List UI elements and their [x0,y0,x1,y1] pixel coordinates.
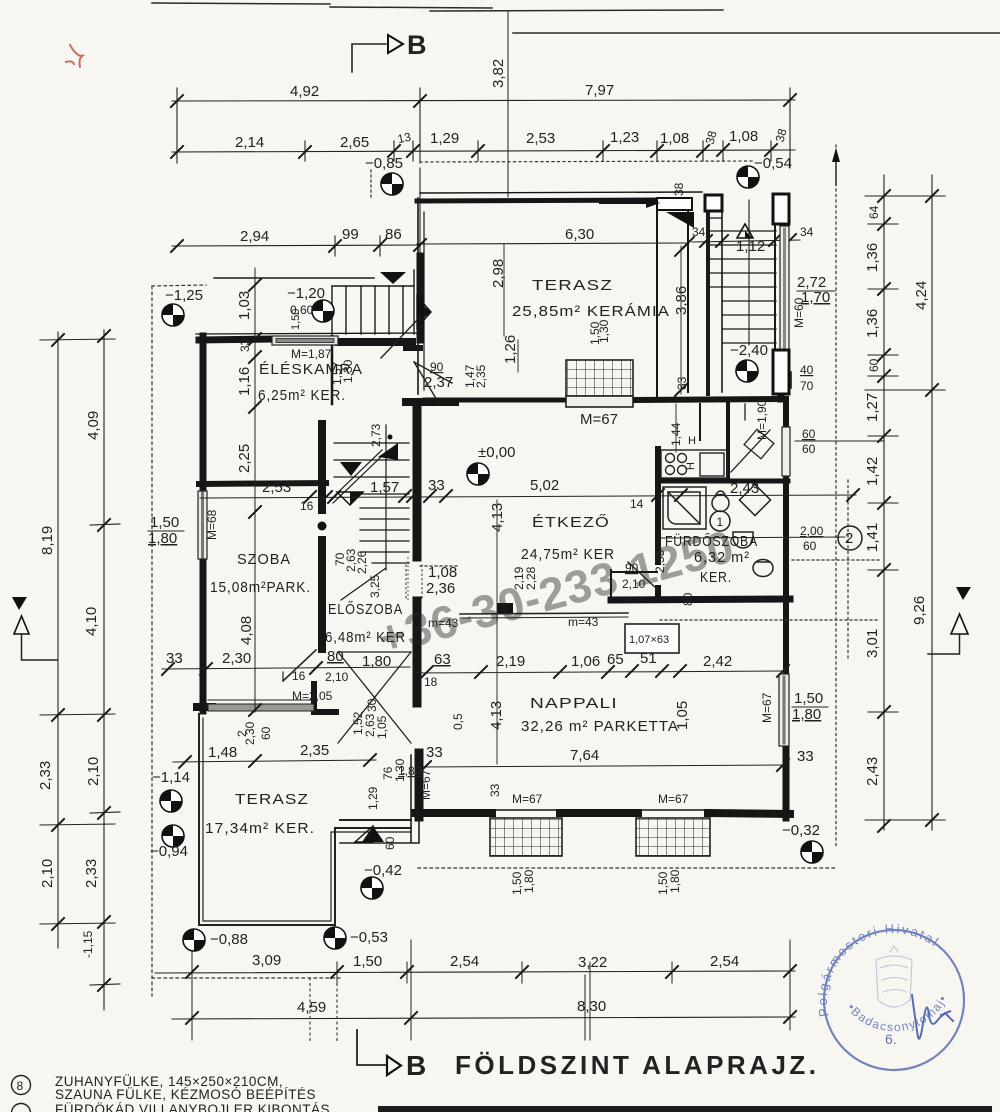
svg-text:−0,88: −0,88 [210,931,248,948]
svg-text:63: 63 [434,651,451,668]
svg-text:80: 80 [681,592,695,606]
svg-text:1,36: 1,36 [864,309,881,338]
svg-text:1,30: 1,30 [341,359,355,383]
svg-text:2,54: 2,54 [710,953,739,970]
svg-text:1,80: 1,80 [148,530,177,547]
east wall south of window [783,746,790,818]
up line diagonal [330,450,382,500]
svg-text:3,82: 3,82 [490,59,507,88]
terasz north wall [417,200,660,201]
svg-text:5,02: 5,02 [530,477,559,494]
nappali sw notch [340,819,411,821]
svg-text:32,26 m² PARKETTA: 32,26 m² PARKETTA [521,718,679,735]
svg-text:70: 70 [800,379,814,393]
svg-text:M=2,05: M=2,05 [292,689,333,703]
svg-text:−1,14: −1,14 [152,769,190,786]
line y=497 across [200,495,856,498]
door sill bath east [782,427,790,476]
svg-text:2,33: 2,33 [37,761,54,790]
svg-text:3,25: 3,25 [368,574,382,598]
svg-text:1,42: 1,42 [864,457,881,486]
svg-text:1,30: 1,30 [597,319,611,343]
door szoba->eloszoba [283,650,316,681]
bottom black bar [378,1106,992,1112]
szoba east / stair west wall [318,424,326,649]
eleskamra north wall right part (under steps) [339,338,412,346]
svg-text:2,54: 2,54 [450,953,479,970]
svg-text:40: 40 [800,363,814,377]
svg-text:60: 60 [867,358,881,372]
door eleskamra (diagonal at entry) [414,362,440,405]
eleskamra right diagonal [381,316,421,358]
section marker B top [352,30,427,72]
window: nappali east [779,674,789,746]
svg-text:2,53: 2,53 [262,479,291,496]
house east wall: stair section [784,196,789,228]
svg-text:4,24: 4,24 [913,281,930,310]
szoba vertical dim line x=255 [254,268,256,712]
svg-text:1,50: 1,50 [353,953,382,970]
cupboard 1,07x63 [625,624,679,653]
svg-text:2,26: 2,26 [355,550,369,574]
eleskamra north wall left part [199,339,272,340]
svg-text:3,01: 3,01 [864,629,881,658]
kitchen / bathroom west wall [655,449,661,562]
svg-text:2,94: 2,94 [240,228,269,245]
svg-text:M=67: M=67 [658,792,689,806]
svg-text:2,42: 2,42 [703,653,732,670]
etkezo north wall west part [406,398,455,406]
svg-text:2,33: 2,33 [83,859,100,888]
svg-text:8: 8 [17,1079,24,1093]
lower boundary diagonal [341,568,386,600]
terasz east edge / stair landing strip [656,198,658,399]
svg-text:9,26: 9,26 [911,596,928,625]
dim row 1,48 / 2,35 [173,760,376,762]
svg-text:4,08: 4,08 [238,616,255,645]
svg-text:60: 60 [802,427,816,441]
wc pear [712,491,729,512]
window: nappali south 2 (hatched sill) [636,818,710,856]
section line B (dashed vertical) [507,12,509,197]
svg-text:4,92: 4,92 [290,83,319,100]
nappali west wall lower [415,753,424,817]
survey point [737,166,759,188]
basin diamond [739,484,770,515]
svg-text:90: 90 [430,360,444,374]
34 / 1,12 / 34 stair dims [692,240,800,242]
svg-text:TERASZ: TERASZ [235,791,309,808]
svg-text:FÜRDÖKÁD VILLANYBOJLER KIBONTÁ: FÜRDÖKÁD VILLANYBOJLER KIBONTÁS [55,1102,330,1112]
svg-text:M=67: M=67 [760,692,774,723]
svg-text:2,00: 2,00 [800,524,824,538]
svg-text:1,80: 1,80 [522,869,536,893]
svg-text:2,35: 2,35 [300,742,329,759]
svg-text:−0,32: −0,32 [782,822,820,839]
thin inner line of south wall across windows [490,809,562,811]
svg-text:SZOBA: SZOBA [237,551,291,568]
svg-text:25,85m² KERÁMIA: 25,85m² KERÁMIA [512,303,670,320]
svg-text:1,36: 1,36 [864,243,881,272]
svg-text:60: 60 [383,836,397,850]
svg-text:16: 16 [300,499,314,513]
svg-text:6,30: 6,30 [565,226,594,243]
threshold szoba -> terasz (gray band) [208,704,314,711]
svg-text:33: 33 [426,744,443,761]
svg-text:3,22: 3,22 [578,954,607,971]
svg-text:1,48: 1,48 [208,744,237,761]
bathroom north wall [658,479,788,484]
svg-text:16: 16 [292,669,306,683]
svg-text:1,08: 1,08 [660,130,689,147]
svg-text:33: 33 [238,338,252,352]
svg-text:M=67: M=67 [580,411,618,428]
door eloszoba X cross [338,652,411,743]
dotted line along row2 [420,161,755,162]
notch arrows [362,826,384,842]
svg-text:1,08: 1,08 [428,564,457,581]
svg-text:1,07×63: 1,07×63 [629,634,669,646]
window: etkezo north (hatched) [566,360,633,407]
svg-text:1,16: 1,16 [236,367,253,396]
window: stair east M=60 [780,226,789,350]
szoba south wall left stub [197,703,212,711]
svg-text:1,29: 1,29 [430,130,459,147]
svg-text:4,10: 4,10 [83,607,100,636]
svg-text:1,57: 1,57 [370,479,399,496]
open triangle marker on stair [737,224,753,238]
svg-text:2,37: 2,37 [424,374,453,391]
svg-text:6.: 6. [885,1031,897,1047]
2,30 row y=668 [162,667,410,669]
svg-text:33: 33 [797,748,814,765]
svg-text:7,64: 7,64 [570,747,599,764]
thin interior dim verticals [497,244,681,764]
svg-text:86: 86 [385,226,402,243]
svg-text:0,5: 0,5 [451,713,465,730]
svg-text:2,14: 2,14 [235,134,264,151]
svg-text:2,35: 2,35 [474,364,488,388]
west outer wall upper [200,336,207,492]
basin half oval lower [733,532,753,548]
thin line above terasz north wall [420,192,702,193]
svg-text:30: 30 [365,698,379,712]
svg-text:1,29: 1,29 [366,786,380,810]
svg-text:4,59: 4,59 [297,999,326,1016]
south wall segments [415,809,492,817]
svg-text:B: B [407,30,427,60]
svg-text:1,05: 1,05 [375,715,389,739]
svg-text:4,09: 4,09 [85,411,102,440]
svg-text:1,23: 1,23 [610,129,639,146]
treads [708,230,776,232]
svg-text:−2,40: −2,40 [730,342,768,359]
svg-text:18: 18 [424,675,438,689]
signature [912,995,953,1039]
svg-text:1,12: 1,12 [736,238,765,255]
svg-text:8,30: 8,30 [577,998,606,1015]
svg-text:1,27: 1,27 [864,393,881,422]
stair arrows [340,462,362,476]
shower [663,487,706,529]
svg-text:1,03: 1,03 [236,291,253,320]
svg-text:34: 34 [692,225,706,239]
svg-text:M=67: M=67 [512,792,543,806]
white pillar posts [705,195,722,211]
svg-text:1,50: 1,50 [794,690,823,707]
svg-text:1,50: 1,50 [290,309,302,330]
svg-text:33: 33 [428,477,445,494]
entry arrow [600,202,652,204]
svg-text:1,41: 1,41 [864,523,881,552]
internal staircase [330,425,409,600]
svg-text:99: 99 [342,226,359,243]
svg-text:1,80: 1,80 [792,706,821,723]
svg-text:1,80: 1,80 [668,869,682,893]
svg-text:2,10: 2,10 [85,757,102,786]
svg-text:±0,00: ±0,00 [478,444,515,461]
svg-text:64: 64 [867,205,881,219]
svg-text:80: 80 [327,648,344,665]
circled 1 [710,511,730,531]
small wc oval [753,560,773,577]
etkezo north wall east part [631,399,776,400]
entry steps east jamb thick [417,256,424,340]
szoba south threshold jamb right [314,684,336,712]
door swing corner room [731,430,770,472]
stair east / eloszoba east wall upper [413,404,422,557]
svg-text:M=60: M=60 [792,297,806,328]
nappali dim row y=672 [415,671,786,673]
svg-text:2: 2 [845,530,853,547]
top landing black block [600,198,694,228]
bottom dim row y=972 [155,971,795,973]
svg-text:6,25m² KER.: 6,25m² KER. [258,387,346,404]
svg-text:1,50: 1,50 [150,514,179,531]
west outer wall lower [200,558,207,711]
svg-text:2,53: 2,53 [526,130,555,147]
bathroom south wall [611,599,790,600]
svg-text:M=1,90: M=1,90 [755,399,769,440]
svg-text:14: 14 [630,497,644,511]
svg-text:3,09: 3,09 [252,952,281,969]
red pen mark [66,45,84,67]
svg-text:M=1,87: M=1,87 [291,347,332,361]
svg-text:7,97: 7,97 [585,82,614,99]
window: bath east 40/70 small [781,372,791,388]
window: nappali south 1 (hatched sill) [490,818,562,856]
svg-text:2,10: 2,10 [39,859,56,888]
svg-text:2,43: 2,43 [730,480,759,497]
svg-text:15,08m²PARK.: 15,08m²PARK. [210,579,311,596]
door bath west swing [628,562,658,590]
svg-text:TERASZ: TERASZ [532,277,613,294]
terasz west edge thin double [417,198,419,394]
svg-text:1,05: 1,05 [674,701,691,730]
svg-text:2,43: 2,43 [864,757,881,786]
svg-text:60: 60 [802,442,816,456]
svg-text:ÉTKEZŐ: ÉTKEZŐ [532,514,610,531]
7,64 row y=766 [420,765,786,767]
svg-text:1,26: 1,26 [502,335,519,364]
svg-text:−0,53: −0,53 [350,929,388,946]
east wall below stairs [783,399,789,425]
svg-text:B: B [406,1050,428,1081]
svg-text:17,34m² KER.: 17,34m² KER. [205,820,315,837]
eleskamra / szoba divider [199,483,326,484]
svg-text:65: 65 [607,651,624,668]
svg-text:60: 60 [803,539,817,553]
svg-text:H: H [685,462,697,470]
window: szoba west [198,491,207,559]
top sheet edge lines [152,3,1000,33]
svg-text:2,19: 2,19 [496,653,525,670]
arrow on dashed overhang line top [835,150,837,185]
dotted verticals near bottom [309,978,311,1042]
svg-text:2,73: 2,73 [369,423,383,447]
svg-text:−1,20: −1,20 [287,285,325,302]
svg-text:8,19: 8,19 [39,526,56,555]
etkezo se stub wall [610,570,612,600]
svg-text:−1,25: −1,25 [165,287,203,304]
svg-text:1,80: 1,80 [398,764,422,778]
thin line over eleskamra [196,333,420,334]
svg-text:2,30: 2,30 [222,650,251,667]
svg-text:60: 60 [259,726,273,740]
window: eleskamra north [272,336,338,345]
svg-text:NAPPALI: NAPPALI [530,695,618,712]
svg-text:33: 33 [488,783,502,797]
bottom dim row y=1018 [172,1017,795,1019]
eloszoba east wall lower [413,601,422,703]
external stair (east, top) [708,194,776,394]
eleskamra east wall [331,336,334,404]
threshold eloszoba -> terasz [422,703,424,705]
entry steps top-center [214,270,414,334]
svg-text:33: 33 [166,650,183,667]
svg-text:1,08: 1,08 [729,128,758,145]
svg-text:38: 38 [672,182,686,196]
svg-text:−0,94: −0,94 [150,843,188,860]
svg-text:H: H [688,435,696,447]
svg-text:2: 2 [235,730,249,737]
svg-text:2,65: 2,65 [340,134,369,151]
svg-text:-1,15: -1,15 [81,930,95,958]
survey point [381,173,403,195]
svg-text:2,10: 2,10 [325,670,349,684]
svg-text:M=68: M=68 [205,509,219,540]
svg-text:FÖLDSZINT ALAPRAJZ.: FÖLDSZINT ALAPRAJZ. [455,1050,820,1080]
svg-text:34: 34 [800,225,814,239]
svg-text:2,25: 2,25 [236,444,253,473]
corner room (shower) walls [726,404,730,479]
svg-text:−0,54: −0,54 [754,155,792,172]
crest faint [876,946,912,1007]
svg-text:1,06: 1,06 [571,653,600,670]
svg-text:SZAUNA FÜLKE, KÉZMOSÓ BEÉPÍTÉS: SZAUNA FÜLKE, KÉZMOSÓ BEÉPÍTÉS [55,1087,316,1102]
